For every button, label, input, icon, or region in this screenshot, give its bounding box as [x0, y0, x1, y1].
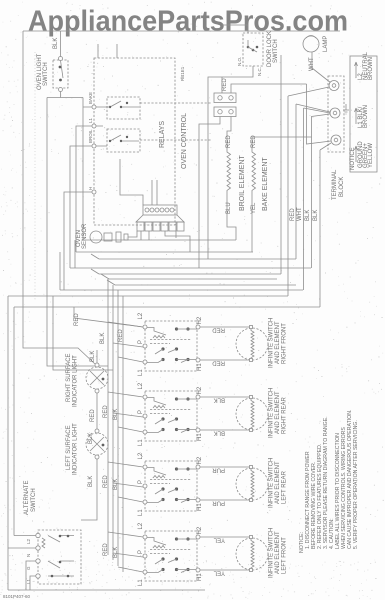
svg-text:BLK: BLK [214, 397, 225, 403]
svg-text:L1: L1 [88, 117, 93, 123]
svg-text:BROWN: BROWN [368, 57, 374, 80]
svg-text:YEL: YEL [213, 570, 225, 576]
svg-text:BLK: BLK [88, 476, 94, 487]
svg-text:TERMINAL: TERMINAL [332, 169, 338, 200]
svg-text:RED: RED [118, 329, 124, 342]
svg-text:INDICATOR LIGHT: INDICATOR LIGHT [73, 355, 79, 407]
svg-text:BLK: BLK [113, 409, 119, 420]
svg-text:N.C.: N.C. [257, 67, 262, 76]
svg-text:RED: RED [212, 360, 225, 366]
svg-text:BROIL ELEMENT: BROIL ELEMENT [239, 155, 246, 211]
svg-text:SENSOR: SENSOR [82, 223, 88, 249]
svg-text:BLK: BLK [214, 430, 225, 436]
svg-text:PUR: PUR [212, 467, 225, 473]
svg-text:RED: RED [103, 405, 109, 418]
svg-text:INFINITE SWITCH: INFINITE SWITCH [269, 388, 275, 438]
svg-text:INFINITE SWITCH: INFINITE SWITCH [269, 458, 275, 508]
svg-text:8101P407-60: 8101P407-60 [3, 594, 31, 599]
svg-text:RELAYS: RELAYS [159, 121, 166, 148]
svg-text:BLK: BLK [100, 333, 106, 344]
svg-text:RED: RED [103, 543, 109, 556]
svg-text:SWITCH: SWITCH [273, 39, 279, 63]
svg-text:AND ELEMENT: AND ELEMENT [275, 321, 281, 364]
svg-text:BLK: BLK [113, 547, 119, 558]
svg-text:INFINITE SWITCH: INFINITE SWITCH [269, 528, 275, 578]
svg-text:WHT: WHT [297, 207, 303, 221]
svg-text:INDICATOR LIGHT: INDICATOR LIGHT [73, 423, 79, 475]
svg-text:BLK: BLK [313, 210, 319, 221]
svg-text:BROWN: BROWN [363, 105, 369, 128]
svg-text:BLK: BLK [305, 210, 311, 221]
svg-text:LEFT FRONT: LEFT FRONT [282, 537, 288, 574]
svg-text:N.O.: N.O. [237, 57, 242, 66]
svg-text:PUR: PUR [212, 500, 225, 506]
svg-text:RIGHT REAR: RIGHT REAR [282, 396, 288, 434]
svg-text:LEFT SURFACE: LEFT SURFACE [66, 425, 72, 470]
svg-text:AND ELEMENT: AND ELEMENT [275, 391, 281, 434]
svg-text:RED: RED [222, 78, 228, 91]
svg-text:SWITCH: SWITCH [31, 488, 37, 512]
svg-text:AND ELEMENT: AND ELEMENT [275, 531, 281, 574]
svg-text:NOTICE: NOTICE [350, 147, 356, 170]
svg-text:BLK: BLK [113, 479, 119, 490]
svg-text:N: N [26, 554, 31, 557]
svg-text:BLK: BLK [88, 433, 94, 444]
svg-text:RED: RED [212, 327, 225, 333]
svg-text:BAKE ELEMENT: BAKE ELEMENT [262, 157, 269, 211]
svg-text:BLOCK: BLOCK [339, 177, 345, 197]
svg-text:5. VERIFY PROPER OPERATION AFT: 5. VERIFY PROPER OPERATION AFTER SERVICI… [353, 420, 359, 549]
svg-text:ALTERNATE: ALTERNATE [24, 481, 30, 515]
svg-text:AppliancePartsPros.com: AppliancePartsPros.com [28, 6, 348, 38]
svg-text:BLK: BLK [90, 351, 96, 362]
svg-text:RED: RED [103, 475, 109, 488]
svg-text:YEL: YEL [213, 537, 225, 543]
svg-text:BAKE: BAKE [88, 92, 93, 104]
svg-text:RED: RED [226, 135, 232, 148]
svg-text:LAMP: LAMP [323, 36, 329, 52]
svg-text:BROIL: BROIL [88, 129, 93, 143]
svg-text:LEFT REAR: LEFT REAR [282, 470, 288, 504]
svg-text:RIGHT SURFACE: RIGHT SURFACE [66, 353, 72, 402]
svg-text:RB1E1: RB1E1 [180, 66, 185, 81]
svg-text:SWITCH: SWITCH [43, 62, 49, 86]
svg-text:RED: RED [290, 208, 296, 221]
svg-text:RED: RED [90, 409, 96, 422]
svg-text:AND ELEMENT: AND ELEMENT [275, 461, 281, 504]
svg-text:RIGHT FRONT: RIGHT FRONT [282, 323, 288, 364]
svg-text:H: H [88, 187, 93, 190]
svg-text:INFINITE SWITCH: INFINITE SWITCH [269, 318, 275, 368]
svg-text:RED: RED [74, 313, 80, 326]
svg-text:L2: L2 [26, 538, 31, 544]
svg-text:BLK: BLK [53, 38, 59, 49]
svg-text:OVEN CONTROL: OVEN CONTROL [181, 113, 188, 169]
svg-text:YELLOW: YELLOW [368, 143, 374, 168]
svg-text:G: G [26, 566, 31, 570]
